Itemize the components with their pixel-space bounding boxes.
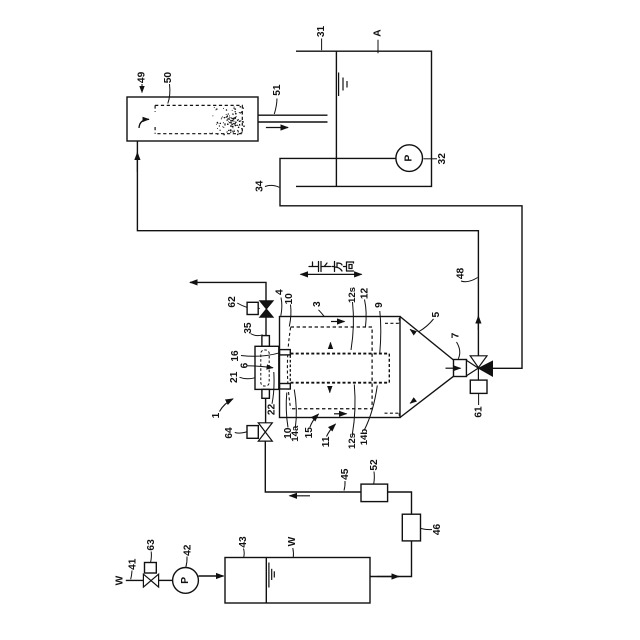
filter bag 50 (dashed): [155, 105, 242, 133]
tube inlet flange upper: [280, 350, 291, 355]
svg-text:35: 35: [243, 322, 254, 334]
leader of 48: [461, 278, 478, 282]
tank 43 partition: [265, 558, 267, 604]
leader of 10 bottom: [286, 393, 288, 428]
cone section 5 bottom line: [400, 376, 454, 417]
center tube 14 top surface 12s (heavy dashes): [291, 353, 390, 355]
direction legend double arrow: [301, 273, 362, 275]
svg-text:5: 5: [431, 312, 442, 318]
svg-text:7: 7: [451, 332, 462, 338]
liquid level mark in tank 43: [269, 563, 274, 588]
leader of W tank: [292, 548, 295, 557]
svg-text:46: 46: [432, 524, 443, 536]
leader of 62: [237, 303, 247, 307]
leader of 64: [235, 432, 247, 433]
leader of 63: [150, 552, 153, 563]
valve stem: [477, 368, 479, 380]
tube closed end 14b / region 9 (dashed): [388, 354, 390, 383]
leader of 14b: [364, 386, 377, 431]
flow arrow on pipe 48: [477, 316, 479, 330]
leader of 31: [321, 39, 323, 51]
svg-text:P: P: [404, 154, 415, 161]
liquid level mark in tank A: [339, 73, 347, 97]
svg-text:51: 51: [272, 84, 283, 96]
svg-text:14b: 14b: [359, 429, 370, 446]
box 52: [361, 484, 388, 502]
actuator box 63: [145, 563, 157, 574]
outlet nozzle box 7: [454, 360, 467, 377]
upper nozzle stub of housing 21: [262, 336, 270, 347]
three-way valve: right triangle (black): [479, 361, 493, 376]
pipe 34: pump to three-way valve: [280, 158, 522, 368]
corner dashes near cone, bottom: [385, 412, 400, 414]
tube mouth 14a (dashed): [289, 355, 291, 383]
flow arrow up inside shell: [330, 343, 332, 348]
filter left end cap (dashed arc): [287, 328, 290, 409]
leader of 46: [421, 529, 432, 530]
pipe 35: valve 62 to end housing: [265, 317, 267, 335]
leader of 32: [424, 158, 438, 160]
flow arrow cone top (to shell): [410, 329, 415, 333]
leader of 42: [186, 557, 187, 568]
box 46: [402, 514, 420, 541]
svg-text:A: A: [373, 29, 384, 37]
svg-text:15: 15: [304, 427, 315, 439]
internal passage of housing (dashed): [261, 350, 269, 386]
leader of 49 (arrow): [141, 84, 143, 93]
valve 63 to pump 42: [159, 579, 173, 581]
svg-text:62: 62: [227, 296, 238, 308]
leader of 51: [274, 99, 277, 115]
svg-text:50: 50: [163, 72, 174, 84]
svg-text:1: 1: [211, 412, 222, 418]
leader of 11 (arrow): [327, 424, 336, 437]
leader of 43: [243, 549, 246, 558]
svg-text:W: W: [287, 536, 298, 546]
svg-text:42: 42: [182, 544, 193, 556]
flow arrow bottom inside shell: [334, 413, 347, 415]
leader of 16: [241, 353, 280, 357]
svg-text:16: 16: [230, 350, 241, 362]
svg-text:31: 31: [316, 26, 327, 38]
svg-text:6: 6: [240, 362, 251, 368]
svg-text:48: 48: [456, 268, 467, 280]
corner dashes near cone, top: [385, 322, 400, 324]
kanji MUKAI: [344, 262, 354, 271]
svg-text:3: 3: [312, 301, 323, 307]
leader of 52: [373, 472, 376, 484]
lower nozzle stub of housing 21: [262, 389, 270, 398]
pump 42 circle: [173, 568, 199, 594]
filter element 12 (dashed rectangle): [291, 327, 373, 409]
leader of 22: [272, 372, 274, 404]
leader of 4: [281, 298, 282, 316]
tank A partition wall: [335, 51, 337, 186]
leader of 45: [344, 481, 345, 491]
leader of 3: [319, 310, 325, 317]
svg-text:61: 61: [473, 406, 484, 418]
svg-text:14a: 14a: [290, 425, 301, 442]
leader of 61: [478, 394, 480, 405]
svg-text:12s: 12s: [347, 287, 358, 303]
leader of 14a: [294, 390, 296, 429]
tank A: [296, 51, 432, 186]
svg-text:43: 43: [238, 536, 249, 548]
svg-text:63: 63: [146, 539, 157, 551]
svg-text:45: 45: [340, 468, 351, 480]
leader of A: [377, 40, 379, 53]
leader of 41: [131, 571, 132, 580]
svg-text:22: 22: [267, 404, 278, 416]
svg-text:52: 52: [369, 459, 380, 471]
svg-text:21: 21: [229, 371, 240, 383]
leader of 7: [457, 342, 460, 359]
actuator box 64: [247, 426, 258, 439]
three-way valve: left triangle: [467, 360, 479, 375]
W feed line: [126, 579, 144, 581]
svg-text:12s: 12s: [347, 433, 358, 449]
three-way valve: top triangle: [470, 356, 487, 368]
tank 43: [225, 558, 370, 604]
pump 32 circle: [396, 145, 423, 172]
flow arrow through nozzle 7: [446, 367, 461, 369]
valve 64 (hollow): [258, 423, 272, 441]
leader of 15 (arrow): [310, 414, 319, 427]
end housing 21: [255, 346, 279, 389]
pipe 51 (double line outlet of vessel 49): [258, 114, 328, 116]
svg-text:11: 11: [321, 436, 332, 447]
stipple (retained particles) in vessel 49: [209, 106, 245, 135]
flow arrow under line 45: [290, 495, 311, 497]
vessel 49: [127, 97, 258, 141]
flow arrow under pipe 51: [266, 127, 288, 129]
svg-text:P: P: [180, 577, 191, 584]
svg-text:10: 10: [284, 293, 295, 305]
kanji SHITA: [321, 262, 331, 272]
flow arrow on tank 43 outlet line: [377, 576, 399, 578]
leader of 5: [419, 319, 434, 332]
svg-text:34: 34: [254, 180, 265, 192]
flow arrow top inside shell: [331, 321, 345, 323]
svg-text:12: 12: [359, 288, 370, 300]
pump 42 discharge arrow into tank 43: [199, 575, 224, 577]
leader of 10 top: [289, 305, 291, 327]
drain line: valve 64 down and right to heater 52: [265, 441, 361, 492]
leader of 6 (arrow): [247, 366, 274, 368]
tube inlet flange lower: [280, 384, 291, 390]
direction legend text (vertical writing): [309, 262, 354, 272]
leader of 9: [380, 311, 381, 353]
leader of 12: [365, 300, 367, 327]
flow arrow down inside shell: [329, 388, 331, 393]
curved flow arrow inside vessel 49: [139, 119, 149, 128]
actuator box 61: [470, 380, 487, 393]
svg-text:49: 49: [137, 71, 148, 83]
filter vessel shell 3: [280, 317, 401, 418]
flow arrow on vessel 49 feed line: [136, 153, 138, 173]
leader of 1 (arrow): [220, 399, 234, 412]
line box 46 down to tank 43 outlet: [370, 541, 412, 577]
leader of 12s top: [351, 302, 353, 350]
feed inlet line to valve 62: [190, 282, 266, 300]
svg-text:41: 41: [127, 558, 138, 570]
kanji UE: [309, 262, 319, 272]
actuator box 62: [247, 302, 258, 314]
leader of 34: [265, 185, 279, 187]
svg-text:32: 32: [437, 153, 448, 165]
svg-text:9: 9: [374, 302, 385, 308]
valve 63 (hollow): [143, 574, 158, 587]
svg-text:W: W: [114, 575, 125, 585]
line 52 to box 46: [388, 492, 412, 514]
svg-text:64: 64: [224, 427, 235, 439]
leader of 50: [168, 84, 170, 104]
flow arrow cone bottom (to shell): [410, 400, 415, 404]
leader of 21: [240, 377, 255, 378]
pipe 48 riser: valve to vessel 49: [137, 141, 478, 356]
kanji HOU: [332, 262, 342, 272]
leader of 12s bottom: [352, 385, 355, 435]
leader of 35: [251, 334, 263, 336]
drain pipe 22 to valve 64: [265, 398, 267, 423]
center tube 14 bottom surface 12s (heavy dashes): [291, 382, 390, 384]
valve 62 (black): [260, 301, 274, 318]
cone section 5 top line: [400, 317, 454, 361]
